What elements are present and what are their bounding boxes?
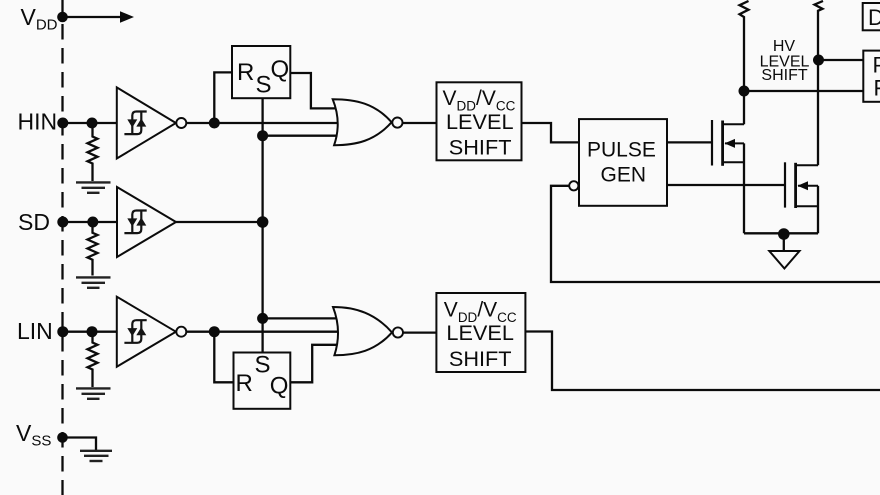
node VS dot — [778, 228, 790, 240]
wire HIN input — [63, 122, 118, 124]
node HIN resistor dot — [87, 118, 98, 129]
wire HIN buffer output to NOR — [186, 122, 345, 124]
wire pulse gen feedback to VS rail — [551, 186, 880, 282]
transistor Q2 HV mosfet lower — [785, 162, 818, 208]
resistor R-LIN — [88, 332, 98, 387]
node VDD dot — [57, 12, 68, 23]
wire S into lower NOR — [263, 317, 345, 319]
svg-text:P: P — [873, 53, 880, 78]
svg-text:LEVEL: LEVEL — [446, 109, 514, 134]
svg-text:SHIFT: SHIFT — [761, 67, 807, 84]
resistor R-HV2 — [815, 1, 824, 60]
VDD arrowhead — [120, 11, 134, 22]
wire Q lower latch to NOR — [290, 345, 340, 383]
op-amp buffer SD schmitt triangle — [117, 187, 176, 257]
ground SD — [76, 277, 111, 287]
gate NOR upper — [333, 99, 392, 145]
resistor R-SD — [88, 222, 98, 276]
svg-text:LEVEL: LEVEL — [446, 320, 514, 345]
wire HV node2 to pulse filter — [818, 59, 864, 61]
block U6 delay box (cut off) — [863, 3, 880, 30]
node SD-S junction dot — [257, 216, 269, 228]
gate NOR lower — [333, 307, 392, 355]
svg-text:SHIFT: SHIFT — [449, 134, 512, 159]
svg-text:PULSE: PULSE — [587, 138, 656, 161]
latch U4 lower RS box — [234, 353, 291, 409]
wire M2 drain up to node2 — [817, 60, 819, 165]
wire LIN input — [63, 331, 118, 333]
svg-text:D: D — [868, 5, 880, 30]
wire HV node1 to pulse filter — [744, 90, 864, 92]
wire R input lower latch — [214, 332, 233, 383]
svg-text:Q: Q — [271, 56, 290, 83]
schmitt glyph LIN — [124, 320, 146, 343]
wire SD buffer output to S line — [176, 221, 263, 223]
wire R input upper latch — [214, 72, 232, 123]
wire VSS to ground — [63, 438, 97, 451]
node HV2 dot — [813, 55, 824, 66]
svg-text:S: S — [256, 72, 272, 99]
node LIN resistor dot — [87, 326, 98, 337]
wire SD into upper NOR — [263, 135, 345, 137]
svg-text:R: R — [236, 370, 253, 397]
node SD resistor dot — [87, 217, 98, 228]
wire Q upper latch to NOR — [290, 73, 340, 108]
op-amp buffer HIN schmitt triangle — [117, 87, 176, 158]
node HIN pin dot — [57, 118, 68, 129]
svg-text:LIN: LIN — [17, 318, 53, 344]
svg-text:SD: SD — [18, 209, 50, 235]
wire VS stem — [783, 233, 785, 251]
wire COM rail — [744, 232, 818, 234]
resistor R-HV1 — [740, 1, 749, 91]
node S-SD upper dot — [257, 130, 268, 141]
wire lower NOR output to level shift — [403, 331, 436, 333]
node S-lower dot — [257, 313, 268, 324]
node LIN pin dot — [57, 326, 68, 337]
wire pulse gen out2 to M2 gate — [667, 184, 785, 186]
wire level shift 1 to pulse gen — [522, 123, 579, 142]
latch U1 upper RS box — [232, 46, 290, 98]
ground LIN — [76, 388, 111, 398]
transistor Q1 arrow — [725, 139, 736, 148]
block U2 VDD/VCC level shift upper — [437, 82, 522, 160]
node pulse gen input bubble — [569, 181, 578, 190]
schmitt glyph SD — [124, 211, 146, 234]
svg-text:R: R — [237, 59, 254, 86]
svg-text:SHIFT: SHIFT — [449, 346, 512, 371]
wire SD input — [63, 221, 118, 223]
node HIN buffer output bubble — [176, 118, 186, 128]
op-amp buffer LIN schmitt triangle — [117, 297, 176, 367]
schmitt glyph HIN — [124, 112, 146, 135]
wire upper NOR output to level shift — [402, 122, 436, 124]
ground VSS — [80, 451, 112, 461]
transistor Q2 arrow — [798, 181, 809, 190]
wire M1 drain up to node — [743, 91, 745, 124]
wire M1 source down — [743, 143, 745, 233]
transistor Q1 HV mosfet upper — [712, 120, 744, 166]
block U5 VDD/VCC level shift lower — [436, 293, 525, 372]
node LIN-R junction dot — [209, 326, 220, 337]
wire level shift 2 output — [526, 332, 880, 391]
resistor R-HIN — [88, 123, 98, 181]
node VSS pin dot — [57, 432, 68, 443]
svg-text:HIN: HIN — [18, 109, 58, 135]
wire S line vertical — [261, 98, 263, 352]
block U7 pulse filter box (cut off) — [863, 51, 880, 102]
ground HIN — [76, 182, 111, 192]
svg-text:Q: Q — [270, 373, 289, 400]
svg-text:GEN: GEN — [601, 163, 647, 186]
IC boundary dashed line — [61, 0, 63, 495]
node HV1 dot — [739, 86, 750, 97]
arrow VS open triangle — [769, 251, 799, 269]
node HIN-R junction dot — [209, 118, 220, 129]
node SD pin dot — [57, 217, 68, 228]
wire VDD arrow line — [63, 16, 124, 18]
wire M2 source down — [817, 186, 819, 234]
wire pulse gen out1 to M1 gate — [667, 141, 712, 143]
block U3 pulse generator — [579, 119, 667, 206]
node NOR1 output bubble — [392, 118, 402, 128]
node NOR2 output bubble — [393, 327, 403, 337]
node LIN buffer output bubble — [176, 327, 186, 337]
svg-text:F: F — [874, 76, 880, 101]
wire LIN buffer output to NOR — [186, 331, 345, 333]
svg-text:S: S — [255, 351, 271, 378]
